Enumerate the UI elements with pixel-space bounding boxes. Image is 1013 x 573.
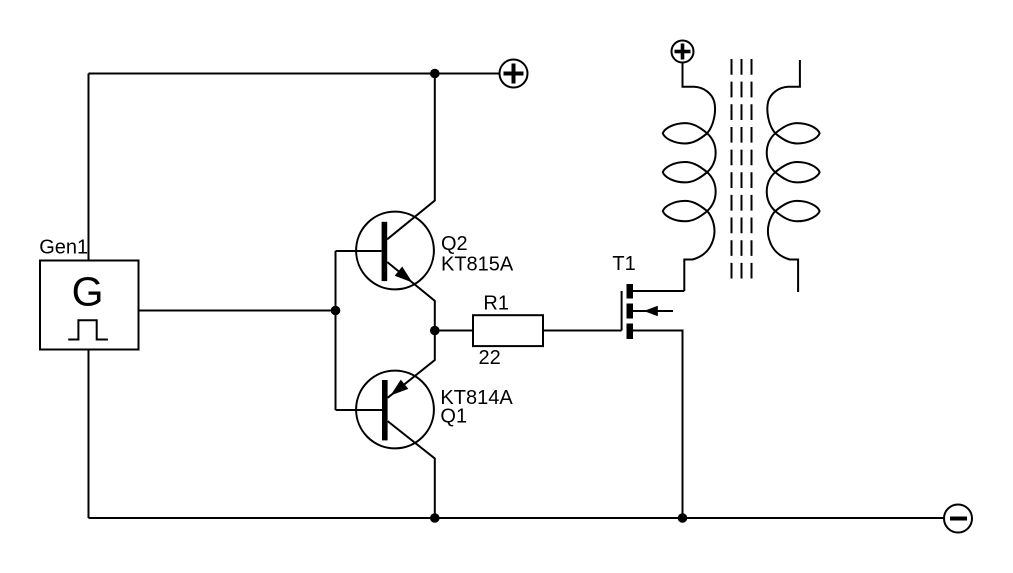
wire left vertical from top rail to Gen1: [88, 74, 90, 261]
transformer secondary winding: [767, 60, 820, 292]
resistor R1: [473, 315, 543, 346]
node junction top: [430, 69, 440, 79]
svg-text:G: G: [72, 269, 104, 315]
svg-text:Gen1: Gen1: [39, 237, 88, 259]
svg-text:T1: T1: [612, 253, 635, 275]
minus terminal: [944, 505, 972, 533]
wire T1 drain: [633, 290, 684, 292]
generator pulse symbol: [68, 320, 108, 339]
transistor T1 (MOSFET): [622, 284, 673, 339]
wire node to R1: [435, 330, 473, 332]
wire T1 source to bottom rail: [633, 331, 683, 519]
wire base column: [335, 251, 337, 410]
wire R1 to T1 gate: [543, 330, 622, 332]
node junction base column: [331, 306, 341, 316]
wire Gen1 bottom to bottom rail: [88, 350, 90, 519]
wire top rail: [89, 73, 500, 75]
plus terminal (supply): [500, 60, 528, 88]
transformer primary winding: [663, 63, 716, 292]
wire Q1 base: [336, 409, 383, 411]
svg-text:Q2: Q2: [441, 233, 468, 255]
generator Gen1 box: [40, 261, 139, 350]
wire Gen1 output to base column: [139, 310, 336, 312]
wire Q2 collector to top rail: [387, 74, 435, 240]
node junction bottom rail T1: [678, 513, 688, 523]
wire Q2 base: [336, 250, 382, 252]
plus terminal (transformer): [672, 41, 694, 63]
transistor Q1: [356, 371, 434, 449]
node junction bottom rail Q1: [430, 513, 440, 523]
transistor Q2: [356, 212, 434, 290]
svg-text:22: 22: [479, 347, 501, 369]
wire Q2 emitter to node: [387, 262, 435, 331]
wire bottom rail: [89, 517, 945, 519]
transformer core: [732, 59, 752, 279]
wire Q1 collector to bottom rail: [388, 421, 435, 518]
svg-text:R1: R1: [483, 293, 509, 315]
node junction emitters/R1: [430, 326, 440, 336]
svg-text:Q1: Q1: [440, 406, 467, 428]
svg-text:KT815A: KT815A: [441, 254, 514, 276]
wire Q1 emitter to node: [388, 331, 435, 398]
